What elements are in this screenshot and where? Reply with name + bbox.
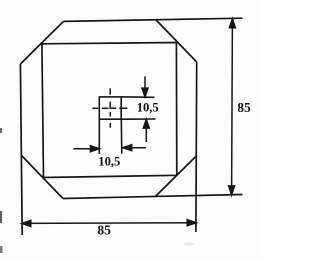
bottom 85 dimension arrowhead left bbox=[22, 220, 31, 226]
horizontal centerline dash 3 bbox=[111, 107, 117, 109]
vertical 10,5 down arrowhead bbox=[142, 88, 148, 97]
horizontal 10,5 left leader with right-pointing arrowhead bbox=[74, 148, 93, 150]
right 85 dimension arrowhead up bbox=[229, 19, 235, 28]
boss right edge extension downward bbox=[120, 119, 123, 154]
top-left chamfer bbox=[20, 21, 63, 64]
outer plate bottom edge (extended right as extension line) bbox=[63, 195, 243, 199]
bottom-right chamfer bbox=[156, 156, 197, 196]
horizontal 10,5 right leader with left-pointing arrowhead bbox=[129, 147, 146, 149]
bottom-left chamfer bbox=[22, 156, 64, 199]
scan artifact mark on left edge (upper) bbox=[0, 128, 2, 133]
scan artifact mark on left edge (lower) bbox=[0, 246, 3, 253]
top-right chamfer bbox=[156, 20, 197, 62]
boss left edge extension downward bbox=[98, 119, 100, 154]
vertical centerline dash 1 bbox=[109, 88, 111, 94]
vertical centerline dash 2 bbox=[109, 102, 111, 109]
vertical 10,5 up-arrow leader bbox=[145, 126, 147, 142]
boss bottom edge extension to the right bbox=[121, 118, 155, 120]
bottom 85 dimension arrowhead right bbox=[187, 220, 196, 226]
center boss square bbox=[99, 97, 121, 119]
outer plate right edge (extended down as extension line) bbox=[195, 62, 198, 232]
horizontal centerline dash 1 bbox=[92, 107, 98, 109]
vertical 10,5 down-arrow leader bbox=[144, 76, 146, 90]
boss top edge extension to the right bbox=[121, 96, 154, 98]
vertical 10,5 up arrowhead bbox=[143, 119, 149, 128]
outer plate top edge (extended right as extension line) bbox=[64, 18, 243, 21]
vertical centerline dash 3 bbox=[109, 112, 111, 117]
vertical centerline dash 4 bbox=[109, 123, 111, 128]
scan artifact mark on left edge (middle) bbox=[0, 211, 2, 223]
horizontal centerline dash 2 bbox=[102, 107, 109, 109]
svg-text:85: 85 bbox=[237, 100, 251, 115]
faint smudge near bottom edge bbox=[183, 243, 195, 246]
svg-text:10,5: 10,5 bbox=[137, 99, 159, 114]
right 85 dimension arrowhead down bbox=[229, 186, 235, 195]
right 85 dimension line bbox=[231, 19, 234, 195]
horizontal centerline dash 4 bbox=[119, 107, 127, 109]
svg-text:85: 85 bbox=[97, 223, 111, 238]
svg-text:10,5: 10,5 bbox=[98, 153, 120, 168]
bottom 85 dimension line bbox=[22, 222, 196, 225]
inner square (top face of plate) bbox=[42, 43, 177, 178]
outer plate left edge (extended down as extension line) bbox=[20, 64, 22, 235]
